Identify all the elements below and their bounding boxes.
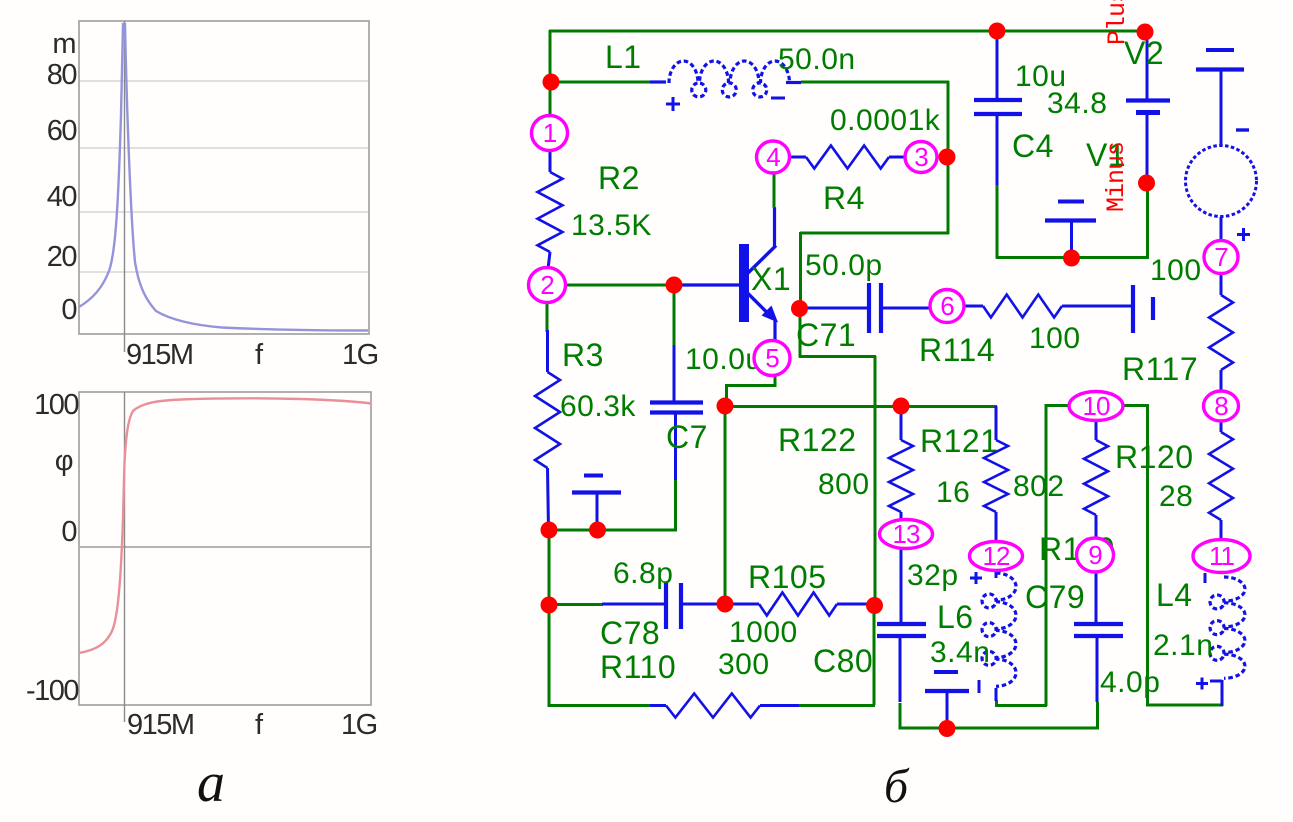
resistor below node 8 [1209,420,1233,540]
wire vertical x948 down [947,81,950,234]
junction [589,522,606,539]
wire L1 right lead run [801,81,949,84]
wire left rail down [548,528,551,707]
svg-text:4.0p: 4.0p [1100,666,1160,699]
svg-text:R110: R110 [600,649,676,685]
svg-text:50.0n: 50.0n [778,43,856,76]
inductor L1 [650,61,801,111]
node 2 [529,268,566,303]
wire vertical x1046 riser [1045,404,1048,706]
svg-text:R121: R121 [920,423,999,459]
battery at R114 output [1133,285,1153,333]
junction [717,596,734,613]
node 10 [1069,391,1123,421]
capacitor C4 [974,32,1022,185]
node 1 [532,116,568,151]
svg-text:915M: 915M [127,709,194,741]
wire bottom run to L4 [1147,704,1224,707]
svg-text:R3: R3 [562,337,604,373]
svg-text:13.5K: 13.5K [571,209,652,242]
svg-text:12: 12 [983,541,1010,571]
svg-text:802: 802 [1013,470,1065,503]
resistor R114 [963,295,1133,318]
chart panel a: magnitude plot frame [79,21,369,334]
wire minus bus y258 [996,256,1149,259]
wire riser x874 up to R105 junction [873,605,876,705]
junction [541,522,558,539]
svg-text:f: f [255,339,264,371]
svg-text:Plus: Plus [1103,0,1132,45]
wire from junction to L1 [550,81,656,84]
wire mid bus y406 [724,405,997,408]
svg-text:R122: R122 [778,422,857,458]
magnitude plot gridlines [80,81,368,272]
junction [543,74,560,91]
svg-text:50.0p: 50.0p [805,249,883,282]
svg-text:10.0u: 10.0u [685,343,763,376]
node 4 [757,141,790,173]
node 11 [1193,540,1250,573]
magnitude y-axis labels [47,28,77,326]
svg-text:6.8p: 6.8p [613,557,673,590]
wire node 2 down to R3 [546,302,549,332]
magnitude curve [79,24,368,331]
junction [666,277,683,294]
capacitor C78 [602,583,725,629]
wire to node 10 left [1045,404,1070,407]
junction [939,149,956,166]
svg-text:L4: L4 [1156,577,1193,613]
wire left rail to C78 [549,603,603,606]
svg-text:R120: R120 [1115,439,1194,475]
inductor L6 [970,570,1016,701]
svg-text:5: 5 [765,343,779,373]
svg-text:f: f [255,709,264,741]
transistor X1 [674,207,778,342]
svg-text:0.0001k: 0.0001k [830,104,941,137]
sine source bottom lead [1220,217,1223,242]
svg-text:7: 7 [1214,242,1228,272]
svg-text:R2: R2 [598,160,640,196]
wire bottom rail [899,727,1099,730]
svg-text:6: 6 [940,291,954,321]
svg-text:C80: C80 [813,643,873,679]
svg-text:2.1n: 2.1n [1153,629,1213,662]
sine source plus sign [1237,228,1250,241]
svg-text:1G: 1G [341,709,377,741]
wire L6 bottom run [995,704,1047,707]
resistor R117 [1209,274,1233,390]
svg-text:C7: C7 [666,419,708,455]
junction [866,597,883,614]
capacitor C71 [806,283,931,333]
svg-text:60: 60 [47,115,77,147]
battery V1 [1045,202,1096,259]
wire V2 minus drop [1146,182,1149,259]
node 5 [754,341,790,376]
svg-text:1000: 1000 [729,616,798,649]
battery V2 [1126,31,1170,183]
phase x-axis labels [127,709,377,741]
wire top-left drop to node 1 [549,30,552,116]
svg-text:100: 100 [34,389,78,421]
junction [1138,175,1155,192]
wire node 5 down-left path [727,372,776,406]
resistor R3 [535,330,560,530]
phase plot 915M marker line [124,392,126,722]
wire bottom-left to R110 [548,704,650,707]
svg-text:32p: 32p [907,559,959,592]
sine source minus sign [1236,128,1249,131]
wire bottom rail up to C79 [1096,702,1099,729]
wire C71 junction down [799,308,802,358]
svg-text:9: 9 [1088,540,1102,570]
svg-text:3.4n: 3.4n [930,636,990,669]
wire vertical x1148 [1146,405,1149,707]
svg-text:0: 0 [61,294,76,326]
svg-text:40: 40 [47,181,77,213]
wire node 4 to collector [773,172,776,208]
ground battery symbol left [572,476,621,532]
svg-text:-100: -100 [26,675,78,707]
svg-text:16: 16 [936,476,970,509]
svg-text:a: a [197,752,225,814]
svg-text:C71: C71 [796,317,856,353]
node 9 [1077,538,1114,572]
wire down to C71 junction [799,232,802,309]
svg-text:C79: C79 [1025,579,1085,615]
sine source circle [1186,146,1257,217]
junction [791,300,808,317]
resistor R4 [790,146,905,169]
svg-text:R114: R114 [919,332,995,368]
svg-text:0: 0 [61,516,76,548]
phase plot zero gridline [80,546,370,548]
magnitude x-axis labels [126,339,378,371]
junction [1137,24,1154,41]
svg-text:800: 800 [818,468,870,501]
node 7 [1204,241,1238,274]
sine source battery top [1196,50,1244,146]
wire vertical x725 [724,406,727,605]
wire node 2 to C7 top junction [565,284,676,287]
wire node 10 right [1122,404,1149,407]
svg-text:300: 300 [718,648,770,681]
junction [893,398,910,415]
svg-text:10: 10 [1083,391,1110,421]
wire L6 bottom stub [995,700,998,707]
svg-text:φ: φ [55,445,73,477]
inductor L4 [1196,573,1245,706]
svg-text:4: 4 [766,142,780,172]
svg-text:1G: 1G [342,339,378,371]
resistor R105 [725,593,874,616]
phase y-axis labels [26,389,78,707]
wire R110 to riser [799,704,875,707]
svg-text:R117: R117 [1122,351,1198,387]
svg-text:8: 8 [1214,391,1228,421]
junction [541,597,558,614]
ground battery symbol bottom [925,672,969,729]
node 13 [880,519,933,549]
svg-text:1: 1 [543,118,557,148]
wire top supply rail [549,30,1146,33]
capacitor C79 [1074,569,1123,702]
resistor R122 zigzag [889,406,913,521]
junction [939,720,956,737]
resistor R119 zigzag [1084,421,1108,540]
svg-text:L6: L6 [937,599,974,635]
wire C7 junction down [673,285,676,346]
wire ground bus y530 [548,529,677,532]
svg-text:20: 20 [47,241,77,273]
wire C4 bottom riser [996,183,999,259]
capacitor C7 [650,345,703,480]
svg-text:60.3k: 60.3k [560,390,636,423]
svg-text:2: 2 [540,270,554,300]
resistor R110 [650,694,799,718]
node 3 [905,142,937,173]
svg-text:13: 13 [893,519,920,549]
node 12 [970,541,1023,571]
resistor 802 zigzag [984,406,1008,542]
svg-text:X1: X1 [751,261,791,297]
svg-text:3: 3 [914,142,928,172]
capacitor C80 [877,548,926,702]
svg-text:915M: 915M [126,339,193,371]
svg-text:L1: L1 [605,39,642,75]
wire y356 over to x875 [799,355,876,358]
svg-text:C4: C4 [1012,128,1054,164]
node 8 [1204,391,1239,421]
svg-text:m: m [52,28,75,60]
svg-text:Minus: Minus [1102,142,1131,212]
svg-text:C78: C78 [600,615,660,651]
svg-text:28: 28 [1159,480,1193,513]
junction [989,23,1006,40]
svg-text:34.8: 34.8 [1047,87,1107,120]
wire horizontal y233 [800,232,949,235]
svg-text:11: 11 [1209,541,1235,571]
wire vertical x875 [874,356,877,606]
junction [717,398,734,415]
resistor R2 [538,149,563,269]
svg-text:б: б [884,760,910,813]
svg-text:R4: R4 [823,180,865,216]
phase curve [79,398,371,653]
node 6 [930,290,964,323]
chart panel a: phase plot frame [79,392,371,705]
wire C80 bottom to bottom rail [899,703,902,730]
svg-text:80: 80 [47,59,77,91]
svg-text:100: 100 [1029,322,1081,355]
svg-text:100: 100 [1150,254,1202,287]
junction [1063,250,1080,267]
magnitude plot 915M marker line [124,21,126,352]
wire C7 bottom to ground bus [674,478,677,531]
svg-text:R105: R105 [748,559,827,595]
